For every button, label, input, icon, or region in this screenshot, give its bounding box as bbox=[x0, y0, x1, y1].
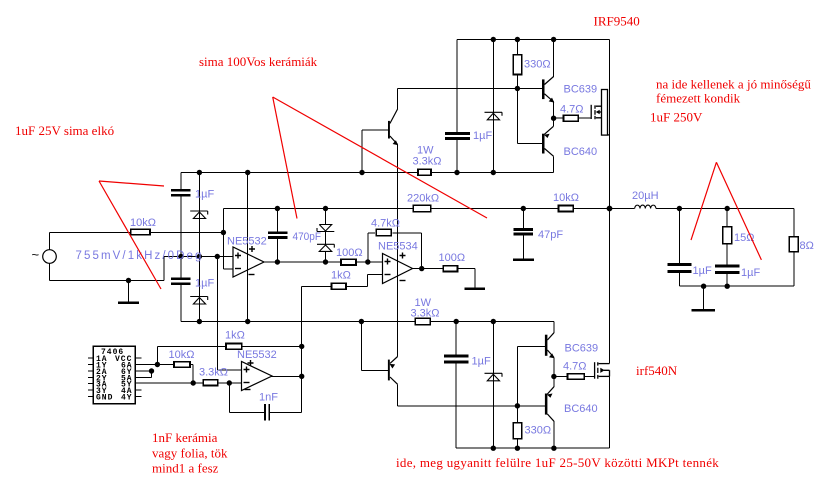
svg-text:470pF: 470pF bbox=[293, 231, 322, 243]
svg-text:fémezett kondik: fémezett kondik bbox=[656, 91, 741, 106]
resistor 10k feedback bbox=[559, 206, 574, 212]
junction 7406 6A node bbox=[155, 362, 160, 367]
mosfet M1 drain/source ties bbox=[608, 134, 610, 136]
junction diodepair bottom bbox=[323, 259, 328, 264]
output ground stub bbox=[703, 286, 705, 309]
svg-text:1µF: 1µF bbox=[195, 278, 214, 290]
wire source bottom bbox=[49, 263, 51, 281]
op-amp U3 plus outside bbox=[248, 360, 254, 366]
capacitor 1uF top-left plates bbox=[171, 189, 191, 192]
junction lowrail x456 bbox=[454, 319, 459, 324]
op-amp U2 minus inside bbox=[385, 274, 391, 276]
red pointer B leg1 bbox=[273, 97, 487, 218]
op-amp U3 plus inside bbox=[244, 367, 250, 373]
resistor 10k input bbox=[131, 229, 150, 234]
resistor 3.3k 1W top bbox=[418, 169, 431, 175]
junction ne5534 out node bbox=[419, 266, 424, 271]
transistor Q5 collector diagonal bbox=[547, 333, 554, 340]
wire 6A to 10k bbox=[135, 364, 174, 366]
top diode branch x=493.3 bbox=[492, 40, 494, 173]
resistor 100ohm ne5534 out bbox=[443, 266, 457, 272]
junction top 4.7 node bbox=[551, 116, 556, 121]
svg-text:10kΩ: 10kΩ bbox=[169, 349, 195, 361]
red pointer C leg1 bbox=[691, 162, 716, 240]
BC640 top emitter riser bbox=[553, 118, 555, 126]
op-amp U2 plus outside bbox=[400, 253, 406, 259]
VAS top base wire bbox=[362, 129, 388, 131]
wire 5A tie to 6Y bbox=[135, 377, 151, 379]
red pointer B leg2 bbox=[273, 97, 297, 219]
minus input stub opamp1 bbox=[223, 268, 233, 270]
svg-text:vagy folia, tök: vagy folia, tök bbox=[152, 446, 228, 461]
junction ne5534 plus node bbox=[365, 259, 370, 264]
svg-text:~: ~ bbox=[32, 247, 40, 262]
capacitor 47pF plates bbox=[514, 228, 533, 231]
resistor 220k bbox=[413, 205, 431, 211]
op-amp U3 NE5532b triangle bbox=[242, 362, 273, 391]
main output rail x=609.5 bbox=[609, 40, 611, 209]
svg-text:330Ω: 330Ω bbox=[525, 425, 552, 437]
junction output bottom x727 bbox=[725, 284, 730, 289]
VAS emitters vertical x=397.6 bbox=[397, 145, 399, 357]
diode D4 bottom mid bbox=[485, 373, 503, 381]
junction 10k/fb node bbox=[221, 230, 226, 235]
resistor 330 top bbox=[513, 55, 522, 75]
transistor Q1 VAS top NPN base bar bbox=[388, 121, 390, 139]
resistor 15ohm bbox=[723, 227, 732, 244]
VAS bottom collector to lower driver bases bbox=[397, 384, 399, 406]
junction 470pF bottom bbox=[275, 259, 280, 264]
junction 7406 6Y-5A bbox=[149, 368, 154, 373]
svg-text:10kΩ: 10kΩ bbox=[553, 192, 579, 204]
feedback wire y=208.5 bbox=[223, 208, 413, 210]
svg-text:330Ω: 330Ω bbox=[524, 59, 551, 71]
junction opamp2 minus bbox=[227, 380, 232, 385]
mosfet M2 body stub and arrow bbox=[604, 370, 610, 376]
junction 470pF top bbox=[275, 206, 280, 211]
opamp1 output wire y=262 bbox=[263, 261, 341, 263]
top supply rail y=39.5 bbox=[457, 39, 610, 41]
lower mosfet source rail bbox=[609, 376, 611, 448]
red pointer A leg1 bbox=[99, 181, 164, 186]
7406 pin 4A 4Y stubs bbox=[135, 389, 141, 391]
svg-text:1µF: 1µF bbox=[741, 267, 760, 279]
junction bias rail x181 bbox=[178, 254, 183, 259]
junction botrail x493 bbox=[491, 446, 496, 451]
svg-text:GND: GND bbox=[96, 394, 113, 403]
resistor 10k 7406 bbox=[174, 362, 190, 368]
svg-text:3.3kΩ: 3.3kΩ bbox=[411, 308, 440, 320]
wire NE5534 minus input bbox=[367, 273, 382, 275]
wire NE5534 plus feedback vertical x=367.8 bbox=[367, 233, 369, 262]
svg-text:47pF: 47pF bbox=[538, 229, 563, 241]
transistor Q6 emitter diagonal bbox=[547, 387, 554, 394]
lower 330 node vertical x=517.4 bbox=[516, 347, 518, 406]
resistor 4.7 top bbox=[564, 115, 579, 121]
capacitor 1uF output1 plates bbox=[667, 263, 691, 266]
lower BC639 collector riser bbox=[553, 322, 555, 333]
red pointer A leg2 bbox=[99, 181, 161, 289]
resistor 3.3k 1W bottom bbox=[415, 318, 430, 324]
wire inductor leads bbox=[610, 208, 635, 210]
ground stub source bbox=[128, 281, 130, 302]
op-amp U3 minus outside bbox=[245, 389, 251, 391]
wire input top from source to 10k bbox=[50, 232, 132, 234]
svg-text:1µF: 1µF bbox=[473, 130, 492, 142]
op-amp U1 minus outside bbox=[249, 274, 255, 276]
feedback node vertical x=223.4 bbox=[222, 209, 224, 270]
mosfet M1 channel dashes bbox=[594, 105, 596, 119]
svg-text:1nF kerámia: 1nF kerámia bbox=[152, 430, 218, 445]
transistor Q2 emitter arrow bbox=[390, 364, 396, 369]
transistor Q3 emitter diagonal bbox=[545, 94, 554, 102]
junction 47pF bbox=[521, 206, 526, 211]
transistor Q2 collector diagonal bbox=[390, 377, 398, 384]
transistor Q5 emitter arrow bbox=[549, 353, 555, 358]
lower mosfet drain rail bbox=[609, 209, 611, 364]
lower BC639 emitter drop bbox=[553, 357, 555, 376]
lower rail y=321.5 bbox=[181, 321, 415, 323]
diode D2 left rail lower bbox=[190, 297, 208, 305]
transistor Q1 emitter diagonal bbox=[390, 136, 398, 145]
BC639 top emitter drop bbox=[553, 102, 555, 119]
junction bottom driver bases bbox=[515, 403, 520, 408]
junction diodepair top bbox=[323, 206, 328, 211]
svg-text:1µF: 1µF bbox=[472, 356, 491, 368]
7406 VCC stub bbox=[135, 357, 141, 359]
capacitor 1uF top-mid plates bbox=[445, 132, 470, 135]
resistor 1k ne5534 bbox=[332, 283, 347, 289]
transistor Q4 emitter arrow bbox=[544, 134, 550, 138]
wire VAS top collector to driver bases y=88.5 bbox=[398, 88, 542, 90]
op-amp U3 minus inside bbox=[244, 382, 250, 384]
vertical rail x=247.7 through opamp1 bbox=[247, 173, 249, 322]
transistor Q4 BC640 top PNP base bar bbox=[542, 134, 545, 154]
wire plus input rail opamp1 bbox=[164, 256, 233, 258]
transistor Q4 emitter diagonal bbox=[545, 126, 554, 134]
output branch 15ohm+1uF x=727.2 bbox=[726, 209, 728, 227]
wire 10k to node A bbox=[150, 232, 223, 234]
transistor Q6 emitter arrow bbox=[547, 394, 553, 398]
svg-text:mind1 a fesz: mind1 a fesz bbox=[152, 461, 219, 476]
svg-text:1uF 250V: 1uF 250V bbox=[650, 110, 703, 125]
wire 1k to opamp2 output vertical x=301.7 bbox=[302, 285, 332, 287]
inductor L1 20uH bbox=[635, 205, 656, 208]
output branch 1uF x=679.4 bbox=[678, 209, 680, 264]
capacitor 1uF output2 plates bbox=[715, 264, 740, 267]
output bottom wire bbox=[679, 285, 794, 287]
svg-text:10kΩ: 10kΩ bbox=[130, 217, 156, 229]
junction midrail x199 bbox=[197, 170, 202, 175]
svg-text:IRF9540: IRF9540 bbox=[594, 14, 640, 29]
supply rail V1 x=181 bbox=[180, 173, 182, 190]
junction lowrail x361 bbox=[359, 319, 364, 324]
svg-text:BC640: BC640 bbox=[564, 403, 598, 415]
top 330 branch x=517.4 bbox=[516, 40, 518, 55]
4.7ohm top wires bbox=[554, 117, 564, 119]
svg-text:100Ω: 100Ω bbox=[336, 247, 363, 259]
diode pair branch vertical bbox=[325, 209, 327, 225]
lower mid cap branch x=456.2 bbox=[455, 322, 457, 355]
opamp2 output wire bbox=[271, 375, 302, 377]
ground bar 47pF bbox=[513, 259, 534, 262]
transistor Q3 collector diagonal bbox=[545, 77, 554, 85]
junction lowrail x493 bbox=[491, 319, 496, 324]
diode D3 top mid bbox=[485, 112, 503, 120]
red pointer C leg2 bbox=[716, 162, 761, 260]
capacitor 1nF plates vertical bbox=[264, 404, 266, 420]
mosfet M1 IRF9540 gate bar bbox=[590, 105, 592, 119]
wire 47pF branch bbox=[522, 209, 524, 229]
resistor 4.7 bottom bbox=[568, 374, 585, 380]
op-amp U2 minus outside bbox=[400, 280, 406, 282]
svg-text:220kΩ: 220kΩ bbox=[407, 193, 439, 205]
junction inductor out bbox=[677, 206, 682, 211]
capacitor 1uF bottom-left plates bbox=[171, 278, 191, 281]
resistor 3.3k 7406 bbox=[203, 380, 218, 386]
svg-text:sima 100Vos kerámiák: sima 100Vos kerámiák bbox=[199, 54, 318, 69]
junction top driver bases bbox=[515, 86, 520, 91]
op-amp U2 NE5534 triangle bbox=[383, 254, 413, 284]
svg-text:1µF: 1µF bbox=[195, 189, 214, 201]
junction botrail x517 bbox=[515, 446, 520, 451]
junction midrail x493 bbox=[491, 170, 496, 175]
svg-text:ide, meg ugyanitt felülre 1uF: ide, meg ugyanitt felülre 1uF 25-50V köz… bbox=[396, 455, 719, 470]
wire 5Y to 3.3k and opamp2 minus bbox=[135, 382, 203, 384]
svg-text:NE5532: NE5532 bbox=[237, 349, 277, 361]
vertical x=217.3 bias to opamp2 plus bbox=[216, 257, 218, 371]
transistor Q2 VAS bottom PNP base bar bbox=[388, 360, 390, 381]
svg-text:BC639: BC639 bbox=[565, 343, 599, 355]
IC 7406 box bbox=[93, 346, 135, 404]
transistor Q1 collector diagonal bbox=[390, 109, 398, 124]
lower BC640 collector drop bbox=[553, 421, 555, 448]
svg-text:8Ω: 8Ω bbox=[800, 240, 814, 252]
svg-text:irf540N: irf540N bbox=[636, 363, 678, 378]
transistor Q2 emitter diagonal bbox=[390, 357, 398, 364]
junction toprail x517 bbox=[515, 37, 520, 42]
op-amp U1 plus inside bbox=[235, 253, 241, 259]
transistor Q3 BC639 top base bar bbox=[542, 79, 545, 99]
svg-text:BC640: BC640 bbox=[564, 146, 598, 158]
junction bottom 4.7 node bbox=[551, 374, 556, 379]
capacitor 470pF plates bbox=[268, 232, 287, 235]
resistor 1k opamp2 feedback bbox=[226, 344, 242, 350]
junction 5Y 10k node bbox=[191, 380, 196, 385]
4.7ohm bottom wires bbox=[554, 376, 568, 378]
svg-text:NE5532: NE5532 bbox=[227, 236, 267, 248]
junction midrail x362 bbox=[359, 170, 364, 175]
lower diode branch x=493.3 bbox=[492, 322, 494, 449]
wire 4.7k to output vertical x=421.7 bbox=[393, 232, 422, 234]
transistor Q1 emitter arrow bbox=[393, 140, 399, 145]
supply rail V2 x=199.4 with diodes bbox=[198, 173, 200, 322]
transistor Q6 BC640 bottom PNP base bar bbox=[545, 394, 548, 415]
svg-text:4Y: 4Y bbox=[121, 394, 133, 403]
op-amp U1 minus inside bbox=[235, 268, 241, 270]
transistor Q6 collector diagonal bbox=[547, 414, 554, 421]
junction botrail x553 bbox=[551, 446, 556, 451]
mosfet M2 source stub bbox=[599, 375, 610, 377]
resistor 100ohm stage1 bbox=[341, 259, 356, 265]
mosfet M2 drain stub bbox=[599, 363, 610, 365]
ground bar output bbox=[691, 309, 715, 312]
svg-text:BC639: BC639 bbox=[564, 84, 598, 96]
junction midrail x247 bbox=[245, 170, 250, 175]
junction output gnd bbox=[701, 284, 706, 289]
svg-text:1kΩ: 1kΩ bbox=[225, 329, 245, 341]
junction opamp2 1k fb top bbox=[299, 344, 304, 349]
junction opamp2 output bbox=[299, 374, 304, 379]
mid rail y=172.5 bbox=[181, 172, 418, 174]
junction toprail x553 bbox=[551, 37, 556, 42]
svg-text:na ide kellenek a jó minőségű: na ide kellenek a jó minőségű bbox=[656, 77, 811, 92]
op-amp U2 plus inside bbox=[385, 259, 391, 265]
svg-text:NE5534: NE5534 bbox=[378, 241, 418, 253]
diode D1 left rail upper bbox=[190, 211, 208, 219]
mosfet M1 body arrow bbox=[596, 110, 600, 115]
op-amp U1 plus outside bbox=[249, 246, 255, 252]
output branch 8ohm x=793.9 bbox=[793, 209, 795, 237]
svg-text:4.7kΩ: 4.7kΩ bbox=[371, 218, 400, 230]
capacitor 1uF bottom-mid plates bbox=[444, 354, 469, 357]
transistor Q5 BC639 bottom base bar bbox=[545, 335, 548, 356]
svg-text:100Ω: 100Ω bbox=[439, 252, 466, 264]
svg-text:1µF: 1µF bbox=[693, 265, 712, 277]
svg-text:3.3kΩ: 3.3kΩ bbox=[199, 367, 228, 379]
svg-text:20µH: 20µH bbox=[632, 190, 659, 202]
lower BC640 emitter bbox=[553, 377, 555, 387]
wire 6Y bbox=[135, 370, 151, 372]
mosfet M1 stubs bbox=[596, 106, 602, 118]
mosfet M2 channel dashes bbox=[597, 362, 599, 379]
source V1 sine circle bbox=[43, 250, 57, 264]
op-amp U1 NE5532 triangle bbox=[233, 247, 264, 277]
resistor 330 bottom bbox=[513, 423, 522, 439]
VAS top collector riser bbox=[397, 89, 399, 110]
svg-text:4.7Ω: 4.7Ω bbox=[563, 361, 587, 373]
transistor Q5 emitter diagonal bbox=[547, 350, 554, 357]
svg-text:4.7Ω: 4.7Ω bbox=[560, 104, 584, 116]
junction toprail x493 bbox=[491, 37, 496, 42]
ground bar ne5534 out bbox=[465, 287, 486, 290]
7406 left pin stubs bbox=[88, 357, 94, 359]
mosfet M2 irf540N gate bar bbox=[594, 362, 596, 379]
470pF branch vertical bbox=[276, 209, 278, 232]
top cap branch x=457 bbox=[456, 40, 458, 133]
diode D5 clamp upper (inverted) bbox=[317, 225, 334, 232]
svg-text:1uF 25V sima elkó: 1uF 25V sima elkó bbox=[15, 123, 114, 138]
junction midrail x457 bbox=[454, 170, 459, 175]
junction source gnd bbox=[126, 278, 131, 283]
svg-text:3.3kΩ: 3.3kΩ bbox=[413, 156, 442, 168]
resistor 4.7k ne5534 bbox=[376, 229, 391, 235]
svg-text:1nF: 1nF bbox=[259, 392, 278, 404]
junction lowrail x247 bbox=[245, 319, 250, 324]
diode D6 clamp lower bbox=[317, 244, 334, 251]
svg-text:1kΩ: 1kΩ bbox=[331, 270, 351, 282]
junction 15ohm top bbox=[725, 206, 730, 211]
opamp2 minus to 1nF vertical bbox=[228, 383, 230, 412]
transistor Q3 emitter arrow bbox=[549, 98, 555, 103]
mosfet M1 body rect bbox=[602, 90, 608, 136]
wire NE5534 output bbox=[412, 268, 444, 270]
junction output node bbox=[607, 206, 613, 212]
transistor Q4 collector diagonal bbox=[545, 149, 554, 157]
BC639 top collector riser bbox=[553, 40, 555, 78]
junction lowrail x199 bbox=[197, 319, 202, 324]
ground bar source bbox=[118, 302, 139, 305]
resistor 8ohm bbox=[789, 237, 798, 252]
BC640 top collector drop bbox=[553, 156, 555, 172]
lower bottom rail y=448.2 bbox=[456, 447, 609, 449]
VAS bottom base wire bbox=[360, 322, 362, 371]
junction bias rail x217 bbox=[215, 254, 220, 259]
junction bias rail x199 bbox=[197, 254, 202, 259]
wire 1k feedback top y=346.4 bbox=[157, 345, 226, 347]
